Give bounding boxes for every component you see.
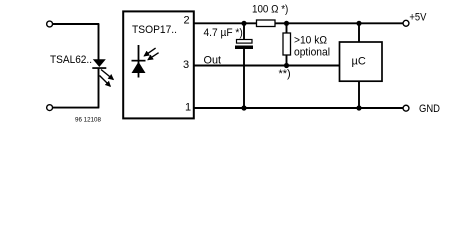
svg-text:96 12108: 96 12108 <box>75 116 101 123</box>
svg-text:+5V: +5V <box>409 12 427 24</box>
svg-text:100 Ω *): 100 Ω *) <box>252 3 288 15</box>
svg-text:4.7 µF *): 4.7 µF *) <box>204 27 243 39</box>
svg-text:optional: optional <box>294 47 330 59</box>
svg-text:>10 kΩ: >10 kΩ <box>294 35 327 47</box>
svg-text:TSOP17..: TSOP17.. <box>132 24 177 36</box>
svg-text:**): **) <box>279 68 291 80</box>
svg-text:GND: GND <box>419 103 440 115</box>
svg-text:µC: µC <box>352 56 366 68</box>
svg-text:Out: Out <box>204 55 222 67</box>
svg-text:2: 2 <box>184 15 190 27</box>
svg-text:1: 1 <box>185 102 191 114</box>
svg-text:3: 3 <box>183 59 189 71</box>
svg-text:TSAL62..: TSAL62.. <box>50 54 92 66</box>
